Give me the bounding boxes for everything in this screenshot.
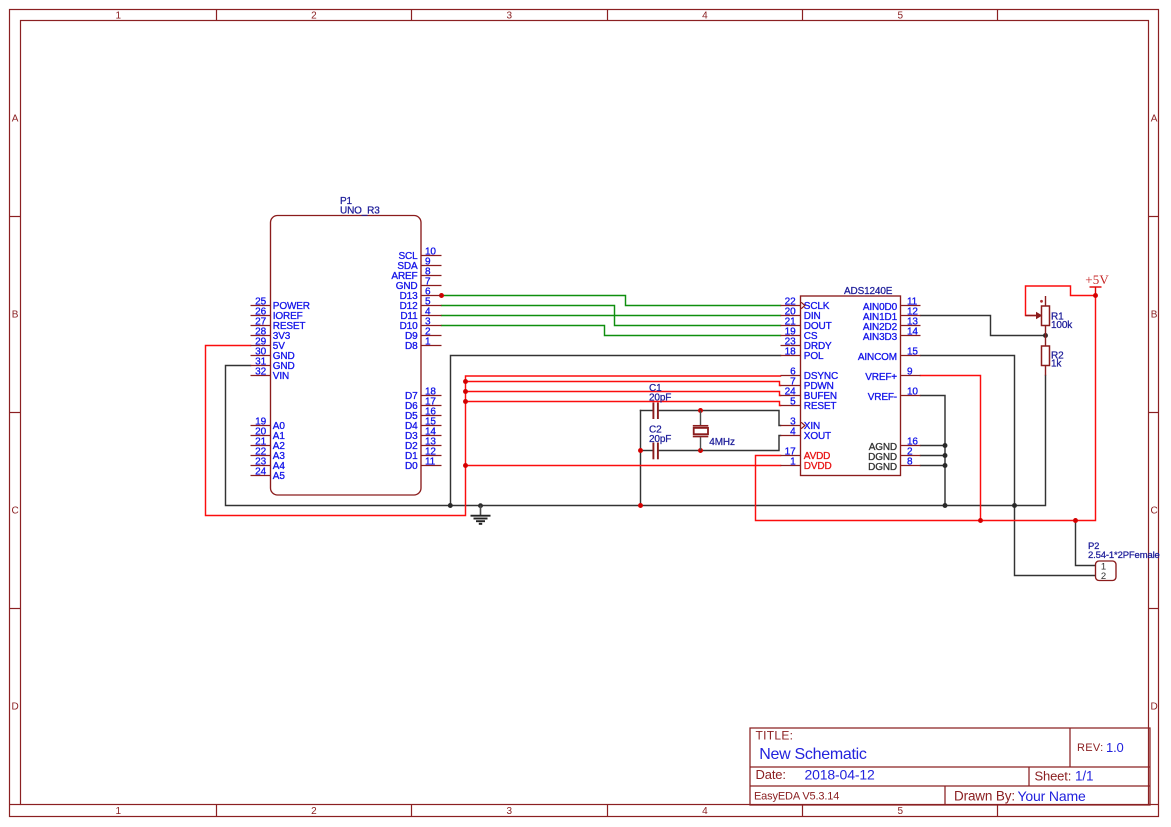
junction black (944.5,455) [943, 453, 948, 458]
P1 pin 19 A0 [251, 417, 286, 432]
P1 pin 26 IOREF [251, 307, 303, 322]
ADS1240E pin 20 DIN [781, 307, 821, 322]
svg-text:REV:: REV: [1077, 742, 1103, 754]
wire D13 to SCLK (green) [442, 296, 781, 306]
ADS1240E pin 8 DGND [868, 457, 920, 473]
wire +5V node jog to R1 wiper (red) [1026, 286, 1096, 316]
svg-text:1: 1 [425, 337, 431, 348]
svg-text:D: D [1150, 702, 1157, 713]
wire VREF+ to +5V bus (red) [921, 376, 981, 521]
capacitor C2 plates [653, 443, 658, 460]
P1 pin 20 A1 [251, 427, 286, 442]
P1 pin 13 D2 [405, 437, 441, 452]
wire AGND to gnd vertical (black) [921, 445, 946, 447]
svg-text:2: 2 [311, 806, 317, 817]
wire crystal left vertical to ground bus (black) [640, 411, 642, 506]
wire C2 left lead (black) [641, 450, 653, 452]
svg-text:15: 15 [907, 347, 918, 358]
junction red (700,450) [698, 448, 703, 453]
svg-text:1: 1 [115, 10, 121, 21]
ADS1240E pin 19 CS [781, 327, 818, 342]
svg-text:Your Name: Your Name [1018, 788, 1087, 804]
svg-text:3: 3 [506, 806, 512, 817]
svg-text:20pF: 20pF [649, 393, 671, 404]
frame row ticks left [10, 216, 21, 218]
svg-text:1k: 1k [1051, 359, 1062, 370]
svg-text:10: 10 [907, 387, 918, 398]
svg-text:C: C [1150, 506, 1157, 517]
wire AINCOM to P2 pin2 (black) [921, 356, 1096, 576]
svg-text:DVDD: DVDD [804, 461, 832, 472]
junction red (1095,295) [1093, 293, 1098, 298]
svg-text:1/1: 1/1 [1075, 768, 1093, 783]
wire P1 GND pin31 to ground bus (black) [226, 366, 1046, 506]
ADS1240E pin 15 AINCOM [858, 347, 921, 363]
svg-text:3: 3 [506, 10, 512, 21]
junction red (465,401) [463, 399, 468, 404]
svg-text:VIN: VIN [273, 371, 289, 382]
svg-text:A5: A5 [273, 471, 286, 482]
svg-text:2: 2 [1101, 571, 1106, 582]
svg-text:D: D [11, 702, 18, 713]
ADS1240E pin 2 DGND [868, 447, 920, 463]
P1 pin 1 D8 [405, 337, 441, 352]
resistor R2 1k [1042, 346, 1050, 376]
wire D10 to CS (green) [442, 326, 781, 336]
crystal X1 4MHz [693, 411, 709, 451]
wire DGND pin2 to gnd vertical (black) [921, 455, 946, 457]
P1 pin 23 A4 [251, 457, 286, 472]
svg-text:C: C [11, 506, 18, 517]
svg-text:18: 18 [785, 347, 796, 358]
ADS1240E pin 24 BUFEN [781, 387, 837, 402]
svg-text:AINCOM: AINCOM [858, 352, 897, 363]
svg-text:TITLE:: TITLE: [756, 728, 794, 742]
P1 pin 9 SDA [397, 257, 441, 272]
svg-text:4: 4 [702, 10, 708, 21]
svg-text:New Schematic: New Schematic [759, 746, 867, 763]
ADS1240E pin 17 AVDD [781, 447, 831, 462]
wire red bus to DVDD [466, 465, 781, 467]
P1 pin 15 D4 [405, 417, 441, 432]
svg-text:9: 9 [907, 367, 913, 378]
junction red (465,465) [463, 463, 468, 468]
IC U1 ADS1240E body [801, 296, 901, 476]
P1 pin 11 D0 [405, 457, 441, 472]
P1 pin 29 5V [251, 337, 286, 352]
frame column ticks bottom [216, 805, 218, 817]
svg-text:EasyEDA V5.3.14: EasyEDA V5.3.14 [754, 790, 839, 802]
svg-text:8: 8 [907, 457, 913, 468]
svg-text:20pF: 20pF [649, 434, 671, 445]
svg-text:XOUT: XOUT [804, 431, 831, 442]
wire C1 left lead (black) [641, 410, 653, 412]
wire DGND pin8 to gnd vertical (black) [921, 465, 946, 467]
P1 pin 12 D1 [405, 447, 441, 462]
svg-text:1.0: 1.0 [1106, 740, 1124, 755]
P1 pin 6 D13 [400, 287, 442, 302]
ground symbol GND [471, 506, 491, 524]
ADS1240E pin 14 AIN3D3 [863, 327, 921, 343]
P1 pin 31 GND [251, 357, 295, 372]
ADS1240E pin 4 XOUT [781, 427, 832, 442]
potentiometer R1 100k [1026, 296, 1050, 346]
P1 pin 27 RESET [251, 317, 306, 332]
frame row ticks right [1149, 216, 1159, 218]
P1 pin 32 VIN [251, 367, 290, 382]
svg-text:Drawn By:: Drawn By: [954, 788, 1015, 803]
svg-text:UNO_R3: UNO_R3 [340, 205, 380, 216]
svg-text:RESET: RESET [804, 401, 837, 412]
P1 pin 7 GND [396, 277, 442, 292]
svg-text:2018-04-12: 2018-04-12 [805, 766, 875, 782]
svg-text:A: A [12, 114, 19, 125]
frame column ticks top [216, 10, 218, 21]
connector P2 body [1096, 561, 1117, 581]
capacitor C1 plates [653, 403, 658, 420]
ADS1240E pin 10 VREF- [868, 387, 921, 403]
wire red bus to PDWN [466, 382, 781, 386]
svg-text:14: 14 [907, 327, 918, 338]
svg-text:24: 24 [255, 467, 266, 478]
svg-text:100k: 100k [1051, 320, 1073, 331]
wire AVDD to +5V bus (red) [756, 296, 1096, 521]
wire +5V bus to P2 pin1 (black) [1076, 521, 1096, 566]
wire POL to ground bus (black) [451, 356, 781, 506]
svg-text:4: 4 [702, 806, 708, 817]
power flag +5V [1090, 287, 1102, 296]
wire C1 right lead to XIN (black) [659, 411, 781, 426]
junction black (1014,505) [1012, 503, 1017, 508]
svg-text:5: 5 [897, 10, 903, 21]
ADS1240E pin 11 AIN0D0 [863, 297, 921, 313]
P1 pin 10 SCL [398, 247, 441, 262]
junction black (944.5,445) [943, 443, 948, 448]
svg-text:1: 1 [790, 457, 796, 468]
svg-text:5: 5 [897, 806, 903, 817]
wire D12 to DOUT (green) [442, 306, 781, 326]
P1 pin 3 D10 [400, 317, 442, 332]
connector P1 UNO_R3 body [271, 216, 422, 496]
svg-text:2: 2 [311, 10, 317, 21]
P1 pin 21 A2 [251, 437, 286, 452]
P1 pin 24 A5 [251, 467, 286, 482]
junction black (944.5,505) [943, 503, 948, 508]
junction red (700,410) [698, 408, 703, 413]
ADS1240E pin 23 DRDY [781, 337, 833, 352]
ADS1240E pin 9 VREF+ [865, 367, 920, 383]
P1 pin 5 D12 [400, 297, 442, 312]
svg-text:D0: D0 [405, 461, 418, 472]
ADS1240E pin 5 RESET [781, 397, 837, 412]
junction black (449.8,505) [448, 503, 453, 508]
ADS1240E pin 21 DOUT [781, 317, 832, 332]
junction red (640,450) [638, 448, 643, 453]
wire VREF- to ground bus (black) [921, 396, 946, 506]
wire C2 right lead to XOUT (black) [659, 436, 781, 451]
junction black (944.5,465) [943, 463, 948, 468]
P1 pin 30 GND [251, 347, 295, 362]
svg-text:ADS1240E: ADS1240E [844, 286, 893, 297]
ADS1240E pin 1 DVDD [781, 457, 832, 472]
ADS1240E pin 16 AGND [869, 437, 921, 453]
svg-text:1: 1 [115, 806, 121, 817]
junction black (1045,335) [1043, 333, 1048, 338]
svg-text:A: A [1151, 114, 1158, 125]
title block frame [750, 728, 1150, 805]
ADS1240E pin 6 DSYNC [781, 367, 839, 382]
wire red bus to BUFEN [466, 392, 781, 396]
wire P1 5V to DSYNC / red 5V bus [206, 346, 781, 516]
ADS1240E pin 3 XIN [781, 417, 821, 432]
P1 pin 28 3V3 [251, 327, 291, 342]
svg-text:B: B [1151, 310, 1158, 321]
wire D11 to DIN (green) [442, 315, 781, 317]
P1 pin 22 A3 [251, 447, 286, 462]
svg-text:VREF-: VREF- [868, 392, 897, 403]
junction red (640,505) [638, 503, 643, 508]
junction red (980,520) [978, 518, 983, 523]
wire AIN1D1 to R1/R2 node (black) [921, 316, 1046, 336]
svg-text:D8: D8 [405, 341, 418, 352]
ADS1240E pin 7 PDWN [781, 377, 834, 392]
svg-text:11: 11 [425, 457, 436, 468]
ADS1240E pin 18 POL [781, 347, 824, 362]
svg-text:Date:: Date: [756, 767, 786, 782]
P1 pin 16 D5 [405, 407, 441, 422]
svg-text:VREF+: VREF+ [865, 372, 897, 383]
svg-text:B: B [12, 310, 19, 321]
svg-text:POL: POL [804, 351, 824, 362]
svg-text:32: 32 [255, 367, 266, 378]
svg-text:2.54-1*2PFemale: 2.54-1*2PFemale [1088, 550, 1160, 561]
svg-text:Sheet:: Sheet: [1035, 769, 1072, 784]
ADS1240E pin 12 AIN1D1 [863, 307, 921, 323]
svg-text:DGND: DGND [868, 462, 897, 473]
P1 pin 25 POWER [251, 297, 310, 312]
junction black (480,505.2) [478, 503, 483, 508]
svg-text:AIN3D3: AIN3D3 [863, 332, 898, 343]
P1 pin 4 D11 [400, 307, 441, 322]
junction red (465,391) [463, 389, 468, 394]
svg-text:+5V: +5V [1085, 272, 1109, 287]
svg-text:5: 5 [790, 397, 796, 408]
ADS1240E pin 13 AIN2D2 [863, 317, 921, 333]
wire red bus to RESET [466, 402, 781, 406]
svg-text:4MHz: 4MHz [709, 437, 735, 448]
junction red (465,381) [463, 379, 468, 384]
P1 pin 2 D9 [405, 327, 441, 342]
svg-text:4: 4 [790, 427, 796, 438]
junction red (1075,520) [1073, 518, 1078, 523]
P1 pin 18 D7 [405, 387, 441, 402]
P1 pin 14 D3 [405, 427, 441, 442]
P1 pin 8 AREF [391, 267, 441, 282]
P1 pin 17 D6 [405, 397, 441, 412]
junction red (441,295) [439, 293, 444, 298]
ADS1240E pin 22 SCLK [781, 297, 830, 312]
